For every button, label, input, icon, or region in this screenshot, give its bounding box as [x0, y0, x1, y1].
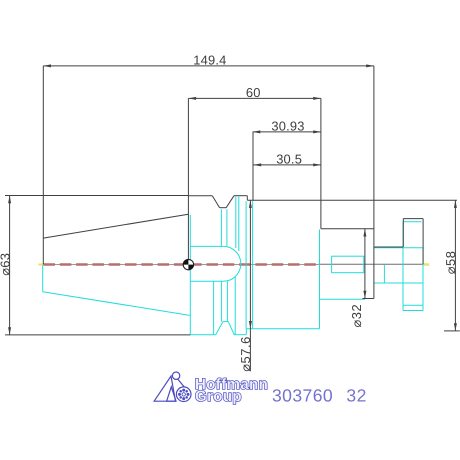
arrow d63 bottom	[8, 327, 11, 335]
d58 extension bottom	[444, 330, 460, 332]
cyan neck top line	[374, 247, 423, 249]
svg-text:Group: Group	[195, 388, 242, 405]
logo arm	[178, 379, 184, 386]
bore bottom black segment	[363, 298, 374, 300]
arrow 30.5 left	[254, 163, 262, 166]
dim line d57.6	[249, 200, 251, 371]
logo head circle	[172, 372, 179, 379]
cyan bore end face	[319, 230, 321, 329]
V-groove left wall	[212, 196, 219, 208]
cyan flange internal vline l2	[220, 281, 222, 321]
arrow 60 right	[313, 97, 321, 100]
cyan small vline on neck	[383, 265, 385, 283]
d63 extension top	[5, 195, 188, 197]
cyan cone bottom line	[43, 292, 190, 316]
cone top line	[43, 214, 188, 238]
cyan body left face full	[252, 201, 254, 329]
flange face + 60 left extension	[187, 98, 189, 264]
cyan outline: taper lower face	[43, 197, 423, 335]
disc top	[403, 218, 423, 220]
cyan bore(16) bottom line	[190, 280, 223, 282]
cyan flange internal vline u4	[238, 197, 240, 252]
cyan flange right face full	[245, 201, 247, 329]
centerline red dashes	[44, 263, 318, 266]
cyan flange bottom right	[234, 334, 246, 336]
dim line 60	[188, 97, 321, 99]
disc right face	[422, 219, 424, 265]
cyan body bottom	[246, 328, 319, 330]
svg-text:30.93: 30.93	[271, 119, 304, 134]
flange-body step	[246, 196, 248, 201]
arrow d63 top	[8, 196, 11, 204]
dim line d58	[454, 200, 456, 331]
cyan flange internal vline u2	[226, 209, 228, 246]
d63 extension bottom	[5, 334, 190, 336]
V-groove right wall	[226, 196, 234, 208]
Hoffmann Group logo: triangle figure	[154, 372, 191, 402]
cyan disc bottom	[403, 310, 423, 312]
centerline gray hairline	[43, 264, 318, 266]
taper small end face + 149.4 left extension	[42, 66, 44, 265]
arrow d57.6 bottom	[249, 321, 252, 329]
neck top	[374, 246, 403, 248]
dim line 30.93	[253, 131, 321, 133]
svg-text:⌀63: ⌀63	[0, 253, 12, 276]
logo gear outer circle	[176, 387, 191, 402]
arrow d32 bottom	[363, 291, 366, 299]
arrow d32 top	[363, 229, 366, 237]
cyan flange-body step lower	[245, 329, 247, 335]
arrow 149.4 left	[43, 64, 51, 67]
cyan bore(16) top line	[190, 245, 223, 247]
cyan flange bottom left	[190, 334, 215, 336]
svg-text:⌀58: ⌀58	[443, 251, 458, 275]
svg-text:149.4: 149.4	[193, 52, 226, 67]
bore step edge + 60/30.93/30.5 right extension	[320, 98, 322, 228]
body top line long	[247, 199, 457, 201]
cyan bore bottom	[320, 298, 366, 300]
cyan disc right face lower	[422, 248, 424, 311]
arrow 30.5 right	[313, 163, 321, 166]
centerline solid right segment	[318, 263, 423, 265]
dim line 149.4	[43, 65, 374, 67]
svg-text:60: 60	[246, 85, 261, 100]
datum point symbol at gauge line	[183, 259, 193, 269]
arrow d57.6 top	[249, 200, 252, 208]
arrow d58 bottom	[454, 323, 457, 331]
dim line d32	[364, 229, 366, 299]
cyan disc left face	[402, 222, 404, 311]
centerline yellow end dash right	[424, 263, 430, 265]
bore top line	[321, 228, 374, 230]
cyan flange internal vline l3	[226, 281, 228, 321]
cyan bore(16) round cap	[223, 246, 240, 281]
arrow d58 top	[454, 200, 457, 208]
body right face + 149.4 right extension	[373, 66, 375, 299]
cyan flange left face	[189, 215, 191, 335]
svg-text:⌀57.6: ⌀57.6	[238, 336, 253, 372]
cyan disc top inner line	[403, 221, 422, 223]
flange top right	[234, 195, 247, 197]
cyan flange internal vline l1	[213, 281, 215, 335]
cyan disc inner bottom line	[403, 304, 423, 306]
svg-text:30.5: 30.5	[276, 152, 302, 167]
flange top left	[188, 195, 212, 197]
arrow 30.93 left	[253, 130, 261, 133]
centerline yellow end dash left	[38, 264, 43, 266]
svg-text:32: 32	[346, 386, 366, 406]
cyan flange internal vline l4	[234, 277, 236, 335]
cyan flange internal vline u1	[220, 209, 222, 246]
cyan V-groove lower right wall	[228, 322, 234, 335]
dimension lines	[5, 66, 460, 371]
cyan V-groove lower left wall	[216, 322, 223, 335]
cyan neck bottom	[374, 282, 423, 284]
disc left face	[402, 219, 404, 247]
dim 30.93 left extension	[252, 132, 254, 201]
svg-text:303760: 303760	[272, 386, 333, 406]
cyan V-groove lower flat	[223, 321, 228, 323]
arrowheads	[8, 64, 457, 335]
black part outline	[43, 66, 457, 299]
svg-text:⌀32: ⌀32	[349, 304, 364, 328]
logo gear rosette	[178, 389, 190, 401]
cyan flange internal vline u3	[235, 197, 237, 249]
arrow 30.93 right	[313, 130, 321, 133]
dim line 30.5	[254, 164, 321, 166]
arrow 149.4 right	[366, 64, 374, 67]
V-groove flat bottom	[220, 207, 227, 209]
dim line d63	[9, 196, 11, 335]
cyan thread box	[332, 256, 364, 273]
arrow 60 left	[188, 97, 196, 100]
